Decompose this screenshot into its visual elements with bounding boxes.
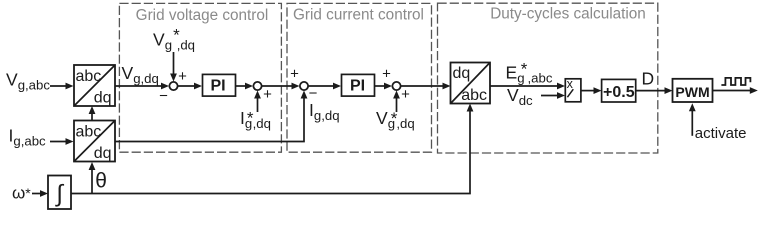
svg-text:+0.5: +0.5 <box>603 84 635 101</box>
svg-text:Vg,dq: Vg,dq <box>122 63 159 86</box>
wire: Vg,abc into abc/dq block <box>50 83 74 90</box>
svg-text:+: + <box>178 68 187 85</box>
svg-text:abc: abc <box>76 124 102 141</box>
summing junction S1 <box>169 82 177 90</box>
PI controller U1 <box>203 74 236 96</box>
svg-text:+: + <box>263 86 272 103</box>
wire: U4 to PWM block U5 <box>636 87 673 94</box>
pulse-train symbol at PWM output <box>721 78 750 85</box>
summing junction S2 <box>253 82 261 90</box>
svg-text:Vg*,dq: Vg*,dq <box>376 108 415 131</box>
wire: S2 to summing junction S3 <box>262 83 300 90</box>
svg-text:activate: activate <box>695 125 747 142</box>
divider block U3 (x over /) <box>565 77 581 102</box>
wire: PWM output <box>713 87 758 94</box>
wire: omega* into integrator U6 <box>32 190 48 197</box>
gain block U4 (+0.5) <box>602 79 636 102</box>
svg-text:Vdc: Vdc <box>507 85 533 108</box>
PWM block U5 <box>673 79 713 102</box>
svg-text:PWM: PWM <box>675 84 709 100</box>
transform block T2 abc/dq (current) <box>74 121 115 163</box>
wire: Vdc into divider U3 <box>541 92 565 99</box>
svg-text:dq: dq <box>94 145 112 162</box>
PI controller U2 <box>342 74 375 96</box>
wire: U1 to summing junction S2 <box>235 83 253 90</box>
svg-text:dq: dq <box>453 65 471 82</box>
dashed region box: Grid voltage control <box>119 3 281 152</box>
svg-text:abc: abc <box>76 68 102 85</box>
svg-text:D: D <box>642 69 655 89</box>
svg-text:−: − <box>159 88 168 105</box>
svg-text:Ig,abc: Ig,abc <box>9 126 47 149</box>
svg-text:PI: PI <box>210 77 225 94</box>
wire: T1 output to summing junction S1 <box>115 83 169 90</box>
wire: Ig,abc into abc/dq block T2 <box>50 138 74 145</box>
svg-text:θ: θ <box>95 170 107 193</box>
wire: theta from T2 up into T1 <box>89 106 96 121</box>
wire: U2 to summing junction S4 <box>374 83 392 90</box>
wire: Vg*,dq up into S4 <box>393 91 400 113</box>
svg-text:Vg*,dq: Vg*,dq <box>153 26 195 53</box>
wire: Ig*,dq up into S2 <box>254 91 261 113</box>
svg-text:abc: abc <box>461 87 487 104</box>
svg-text:Ig*,dq: Ig*,dq <box>240 108 271 131</box>
svg-text:Grid current control: Grid current control <box>293 7 424 24</box>
wire: activate into PWM <box>689 103 696 136</box>
svg-text:Ig,dq: Ig,dq <box>309 100 340 123</box>
svg-text:+: + <box>382 66 391 83</box>
wire: T3 output to divider U3 <box>490 83 565 90</box>
svg-text:+: + <box>401 86 410 103</box>
transform block T3 dq/abc <box>451 63 491 105</box>
summing junction S3 <box>300 82 308 90</box>
svg-text:Eg*,abc: Eg*,abc <box>506 59 553 85</box>
wire: current feedback from T2 up into S3 <box>115 91 307 142</box>
wire: theta branch up into T2 <box>89 162 96 194</box>
transform block T1 abc/dq (voltage) <box>74 65 115 107</box>
wire: S1 to PI controller U1 <box>178 83 202 90</box>
wire: U3 to gain block U4 <box>581 87 602 94</box>
svg-text:ω*: ω* <box>12 184 31 203</box>
integrator block U6 <box>48 176 71 210</box>
wire: S4 to dq/abc block T3 <box>401 83 451 90</box>
wire: theta line from integrator to dq/abc block T3 <box>71 104 473 194</box>
svg-text:Grid voltage control: Grid voltage control <box>136 7 269 24</box>
svg-text:PI: PI <box>350 77 365 94</box>
svg-text:Vg,abc: Vg,abc <box>6 70 50 93</box>
summing junction S4 <box>392 82 400 90</box>
dashed region box: Duty-cycles calculation <box>438 3 658 153</box>
dashed region box: Grid current control <box>287 3 432 152</box>
wire: S3 to PI controller U2 <box>309 83 342 90</box>
wire: Vg*,dq down into summing junction S1 <box>170 52 177 82</box>
svg-text:Duty-cycles calculation: Duty-cycles calculation <box>490 6 646 23</box>
svg-text:dq: dq <box>94 90 112 107</box>
svg-text:∫: ∫ <box>54 181 64 208</box>
svg-text:+: + <box>290 66 299 83</box>
